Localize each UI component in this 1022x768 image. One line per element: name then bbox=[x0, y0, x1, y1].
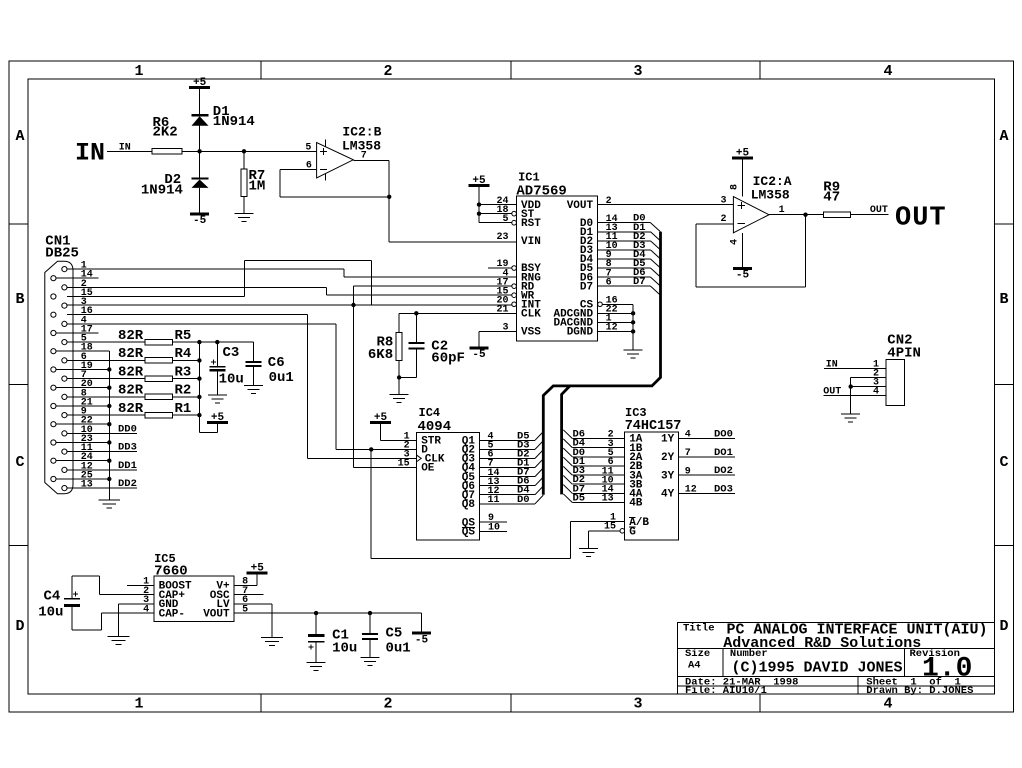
svg-text:Drawn By: D.JONES: Drawn By: D.JONES bbox=[866, 685, 973, 697]
wire Q7 to bus bbox=[480, 494, 536, 496]
CN1 pin 11 circle bbox=[62, 449, 67, 454]
wire +5 to D1 bbox=[199, 88, 201, 116]
zone row ticks right bbox=[994, 223, 1013, 225]
wire INT net to IC4 OE bbox=[353, 305, 355, 468]
wire data bit D5 bbox=[598, 267, 651, 269]
svg-text:21: 21 bbox=[496, 305, 508, 316]
svg-text:1N914: 1N914 bbox=[213, 114, 255, 130]
svg-text:82R: 82R bbox=[118, 383, 144, 399]
diode D1 bbox=[192, 114, 209, 116]
wire 4B from bus bbox=[572, 502, 624, 504]
svg-text:11: 11 bbox=[488, 495, 500, 506]
svg-text:10u: 10u bbox=[38, 605, 63, 621]
wire IC2:A feedback loop bbox=[695, 224, 697, 287]
svg-text:A: A bbox=[999, 128, 1008, 145]
bus entry D0 from IC4 bbox=[535, 495, 543, 504]
CN1 pin 3 circle bbox=[62, 303, 67, 308]
resistor R9 bbox=[823, 212, 850, 217]
svg-text:DB25: DB25 bbox=[45, 245, 79, 261]
CN2 pin 4 wire OUT bbox=[823, 395, 886, 397]
svg-text:DD2: DD2 bbox=[118, 478, 137, 490]
bus entry D3 to IC3 bbox=[563, 466, 572, 475]
svg-text:3: 3 bbox=[721, 196, 727, 207]
wire LV to ground bbox=[234, 603, 272, 605]
svg-text:5: 5 bbox=[305, 142, 311, 153]
junction IC2:A output bbox=[803, 213, 807, 217]
bus entry D5 bbox=[651, 268, 661, 277]
CN1 pin 6 circle bbox=[62, 358, 67, 363]
IC3 body bbox=[625, 432, 679, 540]
power -5 for IC2:A bbox=[733, 267, 752, 270]
CN1 pin 12 circle bbox=[62, 467, 67, 472]
svg-text:D: D bbox=[999, 618, 1008, 635]
wire R1 to +5 rail bbox=[173, 414, 200, 416]
wire +5 to IC2:A bbox=[742, 158, 744, 196]
resistor R7 bbox=[241, 169, 247, 197]
junction D net branch bbox=[369, 447, 373, 451]
wire D2 to -5 bbox=[199, 188, 201, 214]
svg-text:VOUT: VOUT bbox=[203, 608, 230, 620]
wire 3B from bus bbox=[572, 483, 624, 485]
bus entry D1 bbox=[651, 232, 661, 241]
wire 4Y output bbox=[679, 492, 735, 494]
svg-text:4Y: 4Y bbox=[661, 489, 675, 501]
junction DGND bbox=[631, 329, 635, 333]
svg-text:12: 12 bbox=[685, 485, 697, 496]
bus entry D6 from IC4 bbox=[535, 477, 543, 486]
ground below C1 bbox=[307, 662, 326, 664]
svg-text:82R: 82R bbox=[118, 401, 144, 417]
svg-text:CLK: CLK bbox=[521, 309, 541, 321]
svg-text:5: 5 bbox=[242, 604, 248, 615]
wire CN1 pin 1 to RNG bbox=[67, 268, 344, 270]
svg-text:4: 4 bbox=[873, 387, 879, 398]
wire Q1 to bus bbox=[480, 439, 536, 441]
junction ground rail pin 24 bbox=[107, 459, 111, 463]
wire BSY stub bbox=[488, 267, 512, 269]
bus entry D3 from IC4 bbox=[535, 441, 543, 450]
svg-text:VOUT: VOUT bbox=[567, 200, 594, 212]
CN2 pin 2 wire bbox=[851, 376, 887, 378]
wire CN1 pin 17 stub bbox=[56, 332, 98, 334]
bus entry D3 bbox=[651, 250, 661, 259]
svg-text:C5: C5 bbox=[386, 625, 403, 641]
wire CN1 pin 23 to ground rail bbox=[56, 442, 109, 444]
svg-text:2: 2 bbox=[383, 63, 392, 80]
wire R6 to opamp bbox=[182, 150, 317, 152]
ground below C3 bbox=[208, 394, 227, 396]
wire Q5 to bus bbox=[480, 476, 536, 478]
svg-text:82R: 82R bbox=[118, 346, 144, 362]
junction ground rail pin 20 bbox=[107, 386, 111, 390]
bus entry D1 from IC4 bbox=[535, 459, 543, 468]
svg-text:Q8: Q8 bbox=[462, 499, 476, 511]
bus entry D4 bbox=[651, 259, 661, 268]
wire D net to IC3 A/B select bbox=[370, 449, 372, 558]
junction rail at R4 bbox=[197, 358, 201, 362]
zone column ticks top bbox=[260, 61, 262, 79]
wire to VIN pin 23 bbox=[389, 241, 516, 243]
wire CN1 pin 6 to resistor R4 bbox=[67, 359, 145, 361]
wire C2 top bbox=[415, 313, 417, 343]
junction ground rail pin 21 bbox=[107, 404, 111, 408]
wire CLK to R8 bbox=[398, 313, 400, 332]
wire CS to ground net bbox=[602, 303, 633, 305]
svg-text:A: A bbox=[15, 128, 24, 145]
wire R7 to ground bbox=[243, 197, 245, 214]
svg-text:10u: 10u bbox=[219, 372, 244, 388]
svg-text:0u1: 0u1 bbox=[269, 370, 294, 386]
svg-text:2: 2 bbox=[606, 196, 612, 207]
CN1 pin 4 circle bbox=[62, 321, 67, 326]
sheet inner border bbox=[28, 79, 994, 694]
junction ground rail pin 19 bbox=[107, 367, 111, 371]
ground below CN1 bbox=[98, 499, 120, 501]
resistor R3 bbox=[145, 376, 173, 381]
ground below CN2 bbox=[841, 413, 860, 415]
bus entry D7 from IC4 bbox=[535, 468, 543, 477]
svg-text:4: 4 bbox=[883, 63, 892, 80]
wire DACGND bbox=[598, 321, 634, 323]
ground below R7 bbox=[235, 212, 254, 214]
bus entry D5 to IC3 bbox=[563, 494, 572, 503]
svg-text:D7: D7 bbox=[633, 276, 646, 288]
svg-text:0u1: 0u1 bbox=[386, 641, 411, 657]
wire IC5 GND pin to ground bbox=[118, 603, 154, 605]
CN1 pin 7 circle bbox=[62, 376, 67, 381]
junction rail at R3 bbox=[197, 376, 201, 380]
svg-text:R3: R3 bbox=[175, 364, 192, 380]
wire CN1 pin 16 to IC4 CLK bbox=[67, 314, 308, 316]
CN1 pin 2 circle bbox=[62, 285, 67, 290]
wire DGND bbox=[598, 330, 634, 332]
wire data bit D2 bbox=[598, 240, 651, 242]
wire CN1 pin 15 over-route bbox=[67, 295, 245, 297]
svg-text:-5: -5 bbox=[193, 215, 207, 227]
CN1 pin 19 circle bbox=[51, 367, 56, 372]
junction ground rail pin 22 bbox=[107, 422, 111, 426]
junction DACGND bbox=[631, 320, 635, 324]
svg-text:VSS: VSS bbox=[521, 327, 541, 339]
wire C4 to CAP- bbox=[71, 607, 73, 630]
junction CN2 pin3 bbox=[849, 384, 853, 388]
svg-text:13: 13 bbox=[81, 480, 93, 491]
svg-text:B: B bbox=[999, 291, 1008, 308]
capacitor C3 polarized bbox=[209, 366, 225, 368]
wire IC2:B inverting input bbox=[280, 169, 316, 171]
svg-text:D0: D0 bbox=[517, 494, 530, 506]
bus entry D5 from IC4 bbox=[535, 432, 543, 441]
wire data bit D6 bbox=[598, 276, 651, 278]
wire CAP+ to C4 bbox=[99, 594, 154, 596]
svg-text:DD1: DD1 bbox=[118, 460, 137, 472]
svg-text:15: 15 bbox=[398, 459, 410, 470]
svg-text:(C)1995 DAVID JONES: (C)1995 DAVID JONES bbox=[732, 660, 903, 677]
svg-text:12: 12 bbox=[606, 323, 618, 334]
+5 pull-up rail bbox=[198, 342, 200, 432]
wire CN1 pin 4 to IC4 D bbox=[67, 323, 336, 325]
CN2 ground wire bbox=[850, 377, 852, 414]
CN1 pin 20 circle bbox=[51, 385, 56, 390]
ground below LV bbox=[261, 637, 283, 639]
wire 1B from bus bbox=[572, 447, 624, 449]
svg-text:82R: 82R bbox=[118, 328, 144, 344]
svg-text:OUT: OUT bbox=[870, 205, 888, 216]
junction ground rail pin 23 bbox=[107, 440, 111, 444]
wire 1Y output bbox=[679, 438, 735, 440]
wire 3Y output bbox=[679, 474, 735, 476]
wire 2B from bus bbox=[572, 465, 624, 467]
wire CN1 pin 21 to ground rail bbox=[56, 405, 109, 407]
bus entry D1 to IC3 bbox=[563, 457, 572, 466]
svg-text:4: 4 bbox=[143, 604, 149, 615]
svg-text:R2: R2 bbox=[175, 383, 192, 399]
svg-text:DO3: DO3 bbox=[714, 483, 733, 495]
svg-text:2: 2 bbox=[383, 696, 392, 713]
capacitor C1 polarized bbox=[308, 634, 325, 637]
junction VOUT at C5 bbox=[368, 611, 372, 615]
wire CN1 pin 13 stub bbox=[67, 487, 137, 489]
wire data bit D0 bbox=[598, 222, 651, 224]
capacitor C6 bbox=[245, 361, 261, 363]
svg-text:D7: D7 bbox=[580, 281, 593, 293]
wire CN1 pin 12 stub bbox=[67, 469, 137, 471]
IC4 body bbox=[417, 433, 480, 541]
svg-text:C4: C4 bbox=[44, 589, 61, 605]
ground below R8 bbox=[390, 394, 409, 396]
wire CLK net bbox=[399, 312, 516, 314]
svg-text:8: 8 bbox=[730, 184, 741, 190]
CN1 pin 22 circle bbox=[51, 422, 56, 427]
wire data bit D1 bbox=[598, 231, 651, 233]
ground below C5 bbox=[361, 656, 380, 658]
svg-text:1: 1 bbox=[134, 696, 143, 713]
CN1 ground rail bbox=[108, 351, 110, 500]
diode D2 bbox=[192, 177, 209, 179]
svg-text:DGND: DGND bbox=[567, 327, 594, 339]
svg-text:A4: A4 bbox=[688, 660, 701, 672]
svg-text:23: 23 bbox=[496, 232, 508, 243]
CN1 pin 17 circle bbox=[51, 330, 56, 335]
svg-text:DO2: DO2 bbox=[714, 465, 733, 477]
CN1 pin 13 circle bbox=[62, 486, 67, 491]
svg-text:File: AIU10/1: File: AIU10/1 bbox=[685, 685, 767, 697]
wire G to ground bbox=[589, 530, 620, 532]
svg-text:1: 1 bbox=[134, 63, 143, 80]
svg-text:DD3: DD3 bbox=[118, 442, 137, 454]
wire IC2:A inverting input bbox=[696, 223, 734, 225]
resistor R5 bbox=[145, 339, 173, 344]
svg-text:9: 9 bbox=[685, 466, 691, 477]
wire C3 to ground bbox=[216, 372, 218, 395]
wire 1A from bus bbox=[572, 438, 624, 440]
bus entry D7 to IC3 bbox=[563, 485, 572, 494]
svg-text:-5: -5 bbox=[415, 635, 429, 647]
IC1 body bbox=[517, 196, 598, 341]
svg-text:1N914: 1N914 bbox=[141, 183, 183, 199]
svg-text:3Y: 3Y bbox=[661, 470, 675, 482]
power -5 below VSS bbox=[470, 347, 489, 350]
wire CN1 pin 14 stub bbox=[56, 277, 98, 279]
title block dividers bbox=[677, 647, 994, 649]
wire CN1 pin 10 stub bbox=[67, 432, 137, 434]
svg-text:R4: R4 bbox=[175, 346, 192, 362]
wire CN1 pin 3 / INT net bbox=[67, 304, 512, 306]
svg-text:4B: 4B bbox=[629, 498, 643, 510]
wire V+ to +5 bbox=[234, 584, 257, 586]
svg-text:1Y: 1Y bbox=[661, 434, 675, 446]
svg-text:Size: Size bbox=[685, 648, 710, 660]
resistor R6 bbox=[152, 149, 182, 154]
junction ADCGND bbox=[631, 311, 635, 315]
svg-text:D5: D5 bbox=[573, 493, 586, 505]
svg-text:AD7569: AD7569 bbox=[516, 184, 566, 200]
svg-text:Number: Number bbox=[730, 648, 768, 660]
op-amp IC2:B bbox=[317, 143, 354, 178]
svg-text:47: 47 bbox=[823, 190, 840, 206]
wire CN1 pin 25 to ground rail bbox=[56, 478, 109, 480]
CN1 pin 8 circle bbox=[62, 394, 67, 399]
wire CN1 pin 9 to resistor R1 bbox=[67, 414, 145, 416]
svg-text:OUT: OUT bbox=[895, 204, 947, 234]
resistor R1 bbox=[145, 412, 173, 417]
CN1 pin 5 circle bbox=[62, 340, 67, 345]
wire CN1 pin 24 to ground rail bbox=[56, 460, 109, 462]
wire R9 to OUT bbox=[851, 214, 889, 216]
wire CN1 pin 20 to ground rail bbox=[56, 387, 109, 389]
CN1 pin 18 circle bbox=[51, 349, 56, 354]
wire CN1 pin 5 to resistor R5 bbox=[67, 341, 145, 343]
junction INT net branch bbox=[351, 303, 355, 307]
ground below IC5 GND bbox=[107, 635, 129, 637]
ground below IC3 G pin bbox=[579, 548, 598, 550]
bus entry D7 bbox=[651, 286, 661, 295]
wire INT net to RD bbox=[353, 286, 355, 305]
CN2 pin 3 wire bbox=[851, 386, 887, 388]
wire C6 to ground bbox=[252, 366, 254, 386]
svg-text:2K2: 2K2 bbox=[153, 125, 178, 141]
CN1 pin 9 circle bbox=[62, 413, 67, 418]
wire R5 to +5 rail bbox=[173, 341, 200, 343]
IC4 CLK clock mark bbox=[417, 455, 422, 461]
junction rail at R1 bbox=[197, 413, 201, 417]
wire CN1 pin 19 to ground rail bbox=[56, 369, 109, 371]
capacitor C4 polarized bbox=[64, 598, 80, 600]
svg-text:IN: IN bbox=[75, 139, 105, 168]
svg-text:OUT: OUT bbox=[823, 387, 841, 398]
wire Q6 to bus bbox=[480, 485, 536, 487]
wire VSS to -5 bbox=[479, 330, 517, 332]
svg-text:IN: IN bbox=[826, 360, 838, 371]
junction rail top bbox=[197, 340, 201, 344]
wire data bit D3 bbox=[598, 249, 651, 251]
wire +5 to STR bbox=[380, 423, 382, 441]
wire IC5 BOOST stub bbox=[127, 584, 154, 586]
svg-text:6: 6 bbox=[606, 277, 612, 288]
CN1 pin 23 circle bbox=[51, 440, 56, 445]
svg-text:-5: -5 bbox=[736, 269, 750, 281]
wire CN1 pin 2 to WR bbox=[67, 286, 327, 288]
zone row ticks left bbox=[9, 223, 28, 225]
wire 2Y output bbox=[679, 456, 735, 458]
CN1 pin 25 circle bbox=[51, 476, 56, 481]
IC5 body bbox=[154, 576, 234, 621]
svg-text:C: C bbox=[999, 454, 1008, 471]
capacitor C5 bbox=[362, 633, 378, 635]
svg-text:QS: QS bbox=[462, 527, 476, 539]
wire node to R7 bbox=[243, 151, 245, 169]
bus entry D2 bbox=[651, 241, 661, 250]
junction on IC2:B output bbox=[387, 195, 391, 199]
svg-text:OE: OE bbox=[421, 463, 435, 475]
junction +5 rail at ST bbox=[477, 211, 481, 215]
wire Q8 to bus bbox=[480, 503, 536, 505]
wire C3 top bbox=[216, 342, 218, 367]
wire CN1 pin 11 stub bbox=[67, 451, 137, 453]
svg-text:4: 4 bbox=[883, 696, 892, 713]
node junction at R7 bbox=[242, 149, 246, 153]
svg-text:5: 5 bbox=[502, 214, 508, 225]
svg-text:3: 3 bbox=[633, 696, 642, 713]
wire IC2:B feedback loop bbox=[279, 170, 281, 197]
junction R8/C2 ground node bbox=[397, 375, 401, 379]
CN1 pin 10 circle bbox=[62, 431, 67, 436]
svg-text:3: 3 bbox=[633, 63, 642, 80]
wire IN to R6 bbox=[107, 150, 152, 152]
wire R3 to +5 rail bbox=[173, 378, 200, 380]
junction at C3 bbox=[215, 340, 219, 344]
CN1 pin 21 circle bbox=[51, 403, 56, 408]
wire CN1 pin 22 to ground rail bbox=[56, 423, 109, 425]
wire +5 rail to VDD/ST/RST bbox=[478, 185, 480, 222]
bus entry D4 to IC3 bbox=[563, 439, 572, 448]
svg-text:D: D bbox=[15, 618, 24, 635]
bus entry D2 from IC4 bbox=[535, 450, 543, 459]
svg-text:RST: RST bbox=[521, 218, 541, 230]
node junction at D1/D2 bbox=[197, 149, 201, 153]
power -5 rail symbol bbox=[412, 631, 431, 634]
bus entry D6 to IC3 bbox=[563, 430, 572, 439]
wire 2A from bus bbox=[572, 456, 624, 458]
svg-text:G: G bbox=[629, 526, 636, 538]
svg-text:4: 4 bbox=[730, 239, 741, 245]
CN1 DB25 shell bbox=[45, 261, 73, 493]
resistor R4 bbox=[145, 358, 173, 363]
CN1 pin 15 circle bbox=[51, 294, 56, 299]
svg-text:B: B bbox=[15, 291, 24, 308]
svg-text:Title: Title bbox=[683, 623, 715, 635]
svg-text:2Y: 2Y bbox=[661, 452, 675, 464]
bus entry D6 bbox=[651, 277, 661, 286]
wire OSC stub bbox=[234, 594, 263, 596]
wire C5 to ground bbox=[369, 639, 371, 657]
CN1 pin 14 circle bbox=[51, 276, 56, 281]
junction VOUT at C1 bbox=[314, 611, 318, 615]
svg-text:C6: C6 bbox=[268, 355, 285, 371]
svg-text:2: 2 bbox=[721, 214, 727, 225]
wire ADCGND bbox=[598, 312, 634, 314]
svg-text:1M: 1M bbox=[249, 178, 266, 194]
svg-text:LM358: LM358 bbox=[751, 188, 790, 203]
CN2 body bbox=[886, 359, 904, 405]
wire 3A from bus bbox=[572, 474, 624, 476]
data bus from IC1 bbox=[543, 232, 660, 495]
wire data bit D7 bbox=[598, 285, 651, 287]
wire R8 bottom bbox=[398, 360, 400, 394]
ground below IC1 bbox=[624, 349, 643, 351]
svg-text:60pF: 60pF bbox=[431, 350, 465, 366]
svg-text:DO1: DO1 bbox=[714, 447, 733, 459]
